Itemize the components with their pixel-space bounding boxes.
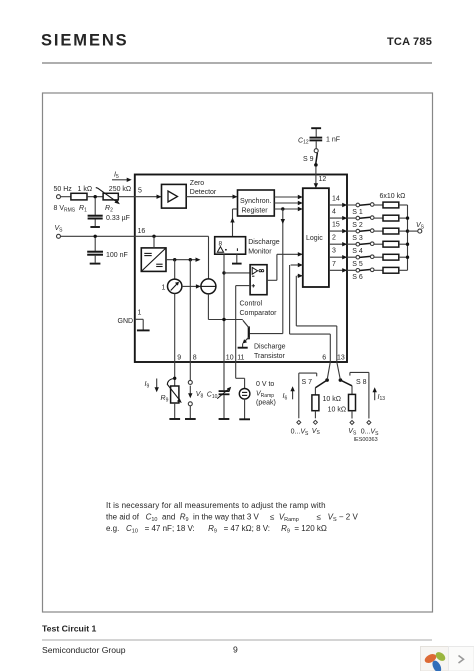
svg-text:Semiconductor Group: Semiconductor Group [42, 645, 126, 655]
svg-text:R9: R9 [161, 395, 169, 403]
capacitor 0.33 uF [88, 198, 130, 226]
footer Semiconductor Group [42, 645, 126, 655]
svg-text:16: 16 [138, 228, 146, 235]
svg-text:S 2: S 2 [352, 222, 363, 229]
wire pin11 to comparator plus input [236, 286, 250, 362]
svg-text:SIEMENS: SIEMENS [41, 32, 129, 50]
voltage source 0V to Vramp [239, 381, 276, 419]
svg-text:I9: I9 [145, 381, 150, 389]
capacitor 100 nF [87, 238, 128, 263]
svg-text:e.g. C10 = 47 nF; 18 V:: e.g. C10 = 47 nF; 18 V: R9 = 47 kΩ; 8 V:… [106, 524, 327, 534]
pin 9 label [177, 354, 181, 361]
label I13 current arrow [373, 387, 386, 402]
wire current source II to ramp node [208, 294, 242, 320]
caption Test Circuit 1 [42, 624, 97, 634]
svg-text:8: 8 [193, 354, 197, 361]
svg-text:12: 12 [319, 176, 327, 183]
svg-text:50 Hz: 50 Hz [54, 186, 73, 193]
header rule [42, 62, 432, 64]
wire discharge pulse down to transistor base [250, 209, 285, 334]
synchron register block [238, 190, 275, 216]
svg-text:the aid of C10 and R9 in: the aid of C10 and R9 in the way that 3 … [106, 513, 358, 523]
svg-text:Zero: Zero [190, 180, 205, 187]
svg-text:I13: I13 [378, 394, 386, 402]
svg-text:Synchron.: Synchron. [240, 198, 272, 205]
resistor R1 [71, 193, 87, 213]
wire pin10 ramp line [223, 254, 225, 362]
svg-text:Register: Register [242, 208, 269, 215]
node S9 lower contact [314, 163, 318, 167]
TCA 785 title [387, 36, 432, 48]
capacitor C10 variable [207, 362, 231, 419]
wire current source I to pin 9 [174, 294, 176, 363]
svg-text:I5: I5 [114, 172, 119, 180]
discharge monitor block [215, 237, 280, 256]
svg-text:0...VS: 0...VS [291, 428, 309, 436]
svg-text:1 kΩ: 1 kΩ [78, 186, 93, 193]
node: AC input terminal [57, 195, 61, 199]
svg-text:0.33 µF: 0.33 µF [106, 215, 130, 222]
transistor discharge Q1 [243, 320, 286, 360]
current source II [201, 279, 216, 294]
IC outline TCA785 [135, 175, 347, 363]
wire pin8 external to V8 terminal [188, 362, 192, 384]
node junction R9 wiper [173, 377, 176, 380]
wire VS rail to pin16 and internal rail [61, 236, 209, 279]
svg-text:8 VRMS: 8 VRMS [54, 205, 76, 213]
svg-text:2: 2 [332, 235, 336, 242]
svg-text:Discharge: Discharge [248, 239, 280, 246]
svg-text:10: 10 [226, 354, 234, 361]
switch S7 [291, 373, 329, 437]
svg-text:Monitor: Monitor [248, 248, 272, 255]
label VS left [55, 225, 64, 233]
node junction rail/regulator [152, 235, 155, 238]
svg-text:I6: I6 [283, 393, 288, 401]
output row pin 15 / switch S3 / resistor [329, 222, 408, 242]
node junction register output / discharge line [281, 207, 284, 210]
switch S9 [303, 149, 318, 164]
node junction R1/R2/C0.33 [94, 195, 97, 198]
wire pin8 reference down [189, 260, 191, 362]
resistor 10k of S8 [328, 386, 357, 437]
label I9 current arrow [145, 379, 159, 393]
svg-text:0 V to: 0 V to [256, 381, 274, 388]
pin 6 label [322, 354, 326, 361]
svg-text:9: 9 [177, 354, 181, 361]
svg-text:10 kΩ: 10 kΩ [323, 396, 341, 403]
svg-text:100 nF: 100 nF [106, 252, 128, 259]
label 250 kOhm [109, 186, 131, 193]
svg-text:11: 11 [237, 354, 244, 361]
watermark chevron [459, 656, 464, 664]
ground of 100nF [90, 263, 101, 265]
label I6 current arrow [283, 386, 295, 401]
wire register to monitor [230, 209, 237, 237]
pin 13 label [337, 354, 345, 361]
wire ramp to comparator minus input [224, 272, 250, 274]
label 50 Hz [54, 186, 73, 193]
note paragraph [106, 501, 358, 534]
wire input to R1 [61, 196, 71, 198]
svg-text:IES00363: IES00363 [354, 437, 378, 443]
wire S9 to pin12 logic [314, 166, 318, 188]
wire output bus [407, 205, 409, 270]
svg-text:1 nF: 1 nF [326, 137, 340, 144]
GND pin 1 [118, 309, 150, 330]
drawing number IES00363 [354, 437, 378, 443]
wire R9 to ground [169, 403, 180, 419]
wire pin6 to S7 [327, 362, 330, 380]
capacitor C12 1nF with top bar [298, 128, 340, 149]
svg-text:GND: GND [118, 318, 134, 325]
svg-text:S 3: S 3 [352, 235, 363, 242]
node: VS supply terminal [57, 234, 61, 238]
wire R2 to pin5 zero detector [118, 195, 161, 199]
footer page number 9 [233, 645, 238, 655]
svg-text:S 1: S 1 [352, 209, 363, 216]
node VS output terminal [408, 222, 425, 233]
svg-text:VS: VS [348, 428, 357, 436]
svg-text:13: 13 [337, 354, 345, 361]
node bus junction row5 [406, 256, 409, 259]
svg-text:250 kΩ: 250 kΩ [109, 186, 131, 193]
output row pin 4 / switch S2 / resistor [329, 209, 408, 229]
svg-text:V8: V8 [196, 391, 204, 399]
label 6x10 kOhm [380, 193, 406, 200]
svg-text:4: 4 [332, 209, 336, 216]
pin 10 label [226, 354, 234, 361]
svg-text:10 kΩ: 10 kΩ [328, 406, 346, 413]
svg-text:VRamp: VRamp [256, 391, 274, 399]
watermark flower logo [423, 650, 447, 671]
resistor R9 potentiometer [161, 379, 182, 404]
label 1 kOhm [78, 186, 93, 193]
watermark viewer buttons [421, 647, 474, 671]
node junction VS/100nF [94, 235, 97, 238]
switch S8 [339, 372, 380, 436]
svg-text:6x10 kΩ: 6x10 kΩ [380, 193, 406, 200]
node V8 lower terminal and ground [185, 402, 196, 419]
node bus junction row2 [406, 216, 409, 219]
svg-text:5: 5 [138, 188, 142, 195]
svg-text:Test Circuit 1: Test Circuit 1 [42, 624, 97, 634]
wire zero detector to synchron register [186, 195, 237, 199]
node junction regulator/pin8 [189, 258, 192, 261]
control comparator block [240, 265, 278, 317]
label I5 current arrow [112, 172, 132, 183]
node junction ramp/current source II [222, 318, 225, 321]
resistor 10k of S7 [312, 388, 341, 436]
svg-text:TCA 785: TCA 785 [387, 36, 432, 48]
svg-text:R1: R1 [79, 205, 87, 213]
svg-text:Logic: Logic [306, 235, 323, 242]
ground of discharge monitor [232, 254, 242, 263]
svg-text:6: 6 [322, 354, 326, 361]
pin 8 label [193, 354, 197, 361]
register output wires to logic [274, 195, 303, 211]
svg-text:Comparator: Comparator [240, 310, 278, 317]
wire to current source I [174, 260, 176, 279]
wire pin11 external [236, 362, 245, 389]
svg-text:VS: VS [55, 225, 64, 233]
SIEMENS logotype [41, 32, 129, 50]
ground of 0.33uF [90, 226, 100, 228]
svg-text:Transistor: Transistor [254, 353, 286, 360]
node bus junction row4 [406, 243, 409, 246]
svg-text:S 5: S 5 [352, 261, 363, 268]
page frame [43, 93, 433, 612]
svg-text:S 8: S 8 [356, 379, 367, 386]
pin 11 label [237, 354, 244, 361]
wire R1 to R2 [87, 196, 103, 198]
pin 5 label [138, 188, 142, 195]
svg-text:It is necessary for all measur: It is necessary for all measurements to … [106, 501, 326, 510]
node junction regulator/current source I [173, 258, 176, 261]
output row pin 3 / switch S5 / resistor [329, 248, 408, 269]
pin 12 label [319, 176, 327, 183]
node bus junction row3 [406, 229, 409, 232]
output row pin 2 / switch S4 / resistor [329, 235, 408, 255]
resistor R2 250k potentiometer [96, 188, 120, 214]
output row pin 7 / switch S6 / resistor [329, 261, 408, 281]
output row pin 14 / switch S1 / resistor [329, 196, 408, 216]
svg-text:S 9: S 9 [303, 156, 314, 163]
arrow current source I to II [182, 284, 201, 288]
wire rail to regulator [153, 236, 155, 248]
svg-text:7: 7 [332, 261, 336, 268]
label V8 voltage arrow [188, 386, 203, 400]
wire pin13 long pulse [296, 274, 337, 362]
svg-text:Control: Control [240, 301, 263, 308]
svg-text:(peak): (peak) [256, 400, 276, 407]
svg-text:S 4: S 4 [352, 248, 363, 255]
svg-text:14: 14 [332, 196, 340, 203]
logic block [303, 188, 329, 287]
op-amp zero detector block [162, 180, 217, 208]
voltage regulator block [141, 248, 166, 272]
footer rule [42, 639, 432, 641]
svg-text:S 6: S 6 [352, 274, 363, 281]
svg-text:S 7: S 7 [302, 379, 313, 386]
svg-text:3: 3 [332, 248, 336, 255]
svg-text:R2: R2 [105, 205, 113, 213]
svg-text:C10: C10 [207, 392, 218, 400]
svg-text:0...VS: 0...VS [361, 428, 379, 436]
svg-text:15: 15 [332, 222, 340, 229]
svg-text:9: 9 [233, 645, 238, 655]
svg-text:1: 1 [138, 309, 142, 316]
svg-text:VS: VS [416, 222, 425, 230]
pin 16 label [138, 228, 146, 235]
wire pin6 inhibit [290, 263, 331, 362]
wire regulator output [166, 258, 201, 262]
wire pin13 to S8 [337, 362, 341, 380]
wire pin9 external [174, 362, 176, 386]
label 8 V RMS [54, 205, 76, 213]
svg-text:VS: VS [312, 428, 321, 436]
svg-text:1: 1 [162, 285, 166, 292]
svg-text:Discharge: Discharge [254, 343, 286, 350]
svg-text:C12: C12 [298, 137, 309, 145]
svg-text:Detector: Detector [190, 189, 217, 196]
node junction ramp/comparator [222, 271, 225, 274]
ground of discharge transistor [238, 344, 248, 348]
wire comparator output to logic [267, 252, 303, 280]
current source I (ramp current) [162, 279, 182, 293]
